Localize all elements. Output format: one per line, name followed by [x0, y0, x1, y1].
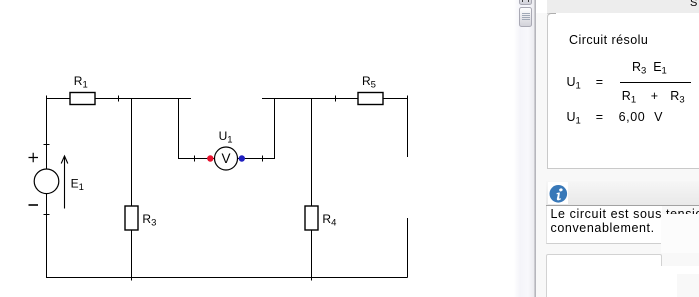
terminal tick voltmeter left	[194, 156, 196, 162]
formula text	[569, 33, 648, 47]
info icon cell	[548, 182, 568, 204]
resistor R1 body	[70, 93, 95, 105]
voltmeter blue terminal	[239, 155, 245, 161]
svg-text:U1: U1	[219, 129, 233, 146]
resistor R4 body	[305, 206, 318, 230]
junction tick top-left corner	[46, 96, 48, 102]
separator line	[534, 0, 537, 297]
junction tick top-right corner	[407, 96, 409, 102]
svg-text:R1: R1	[74, 74, 88, 91]
voltage source E1 body	[34, 169, 59, 194]
resistor R5 body	[358, 93, 383, 105]
wire right edge lower segment	[407, 218, 409, 278]
E1 direction arrow	[61, 156, 68, 209]
panel background	[536, 0, 699, 297]
box corner notch	[547, 13, 556, 22]
wire voltmeter right drop	[238, 99, 275, 159]
svg-text:R4: R4	[322, 212, 336, 229]
svg-text:V: V	[221, 151, 230, 166]
svg-text:R5: R5	[362, 74, 376, 91]
junction tick bottom R4	[311, 275, 313, 281]
wire left branch (E1)	[46, 99, 48, 278]
wire R3 branch	[131, 99, 133, 278]
wire voltmeter left drop	[179, 99, 215, 159]
svg-text:E1: E1	[71, 176, 84, 193]
toolbar button 2 list icon	[522, 13, 530, 14]
voltmeter U1 body	[215, 147, 238, 170]
toolbar button 2	[519, 7, 532, 27]
wire top rail left segment	[46, 98, 191, 100]
white notch right of bottom box	[661, 266, 699, 274]
junction tick bottom R3	[131, 275, 133, 281]
wire right edge upper segment	[407, 99, 409, 158]
right side toolbar strip	[514, 0, 534, 297]
terminal tick E1 top	[44, 144, 50, 146]
voltmeter red terminal	[207, 155, 213, 161]
terminal tick E1 bottom	[44, 214, 50, 216]
white corner above panel	[536, 0, 547, 13]
toolbar button 1 (cut off at top)	[519, 0, 532, 5]
wire bottom rail	[46, 277, 408, 279]
E1 polarity minus sign	[29, 204, 39, 206]
toolbar button 1 icon feet	[522, 0, 524, 2]
junction tick node A	[118, 96, 120, 102]
svg-text:R3: R3	[142, 212, 156, 229]
E1 polarity plus sign	[29, 153, 39, 163]
circuit schematic SVG	[0, 0, 513, 297]
info icon	[549, 185, 568, 204]
top gray band	[547, 0, 699, 14]
bottom white box	[546, 254, 662, 297]
terminal tick voltmeter right	[262, 156, 264, 162]
junction tick node B	[335, 96, 337, 102]
info header bar	[546, 181, 699, 206]
wire top rail right segment	[262, 98, 408, 100]
S title text	[690, 0, 697, 9]
info text box	[546, 206, 662, 245]
white box: Circuit resolu	[547, 13, 699, 169]
overlay white window bottom-right	[661, 214, 699, 253]
wire R4 branch	[311, 99, 313, 278]
resistor R3 body	[125, 206, 138, 230]
